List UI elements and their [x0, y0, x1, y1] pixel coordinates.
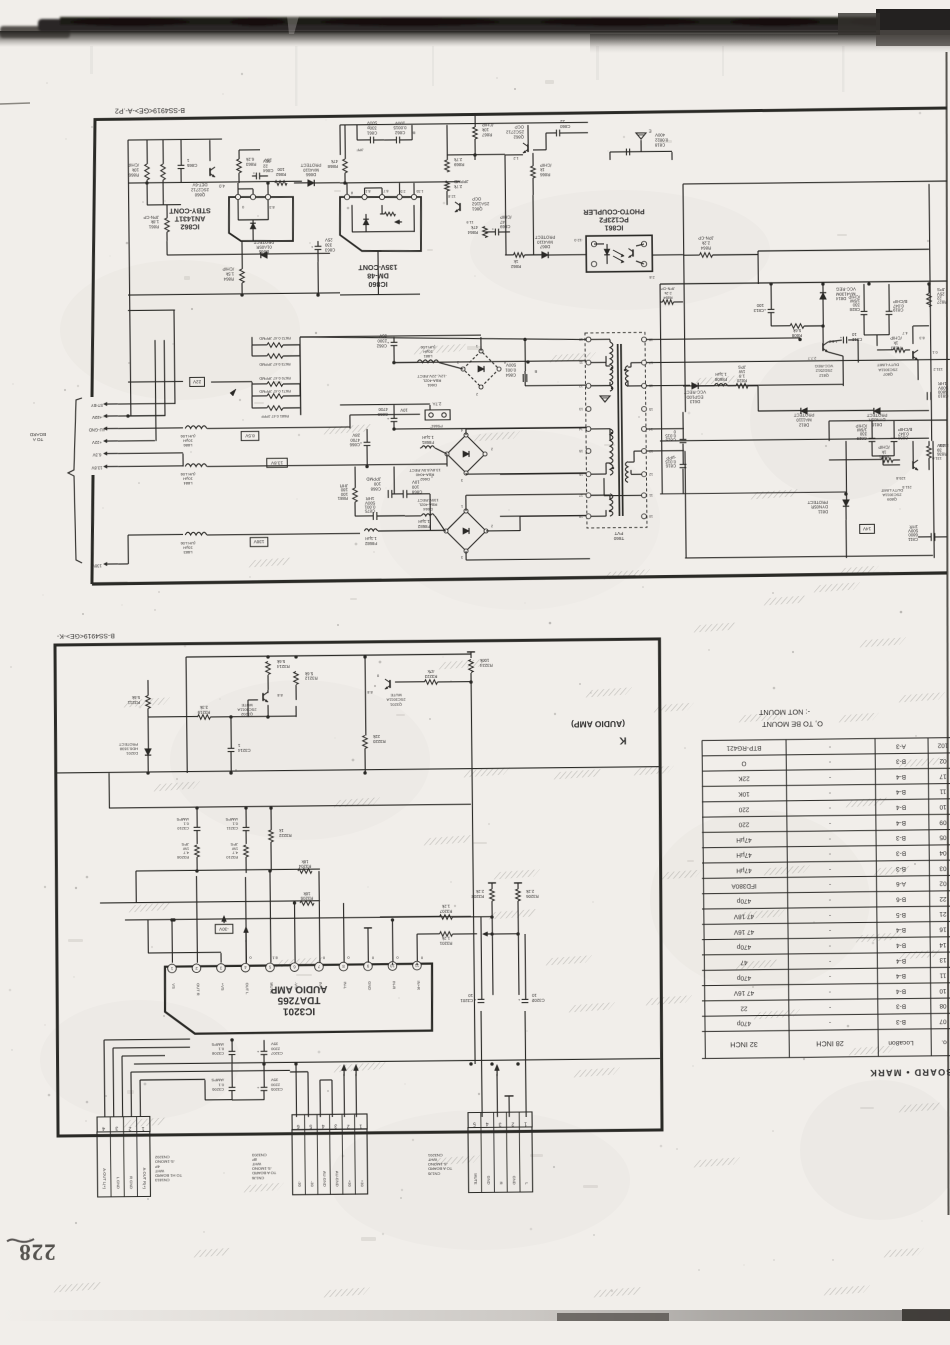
wire +22v run2 — [118, 440, 155, 442]
svg-text:2.2k: 2.2k — [475, 889, 484, 894]
svg-text:VCC-RECT: VCC-RECT — [683, 389, 706, 394]
diode D613 EGP10D VCC-RECT — [692, 383, 698, 389]
svg-text:IFD380A: IFD380A — [731, 882, 757, 889]
svg-text:-µPP: -µPP — [666, 455, 676, 460]
svg-text:11: 11 — [649, 493, 653, 497]
transistor Q809 2SC3011A duty-limit — [912, 461, 914, 469]
svg-text:B/CHIP: B/CHIP — [898, 427, 913, 432]
transistor Q807 2SC3011A duty-limit — [912, 351, 914, 359]
IC860 pin 1 — [411, 194, 416, 199]
boxed 13.8V — [267, 458, 288, 467]
vcc rail — [660, 281, 947, 284]
svg-text:10: 10 — [939, 987, 947, 994]
svg-text:B-SS4919<GE>-K-: B-SS4919<GE>-K- — [57, 632, 115, 640]
svg-text:+: + — [839, 335, 842, 340]
capacitor C812 10 — [842, 337, 844, 344]
svg-text:6.3V: 6.3V — [92, 453, 101, 458]
resistor R864b 47k — [483, 226, 488, 237]
T860 pin 14 right — [642, 427, 647, 432]
capacitor C865 1 — [178, 164, 185, 166]
svg-text:PROTECT: PROTECT — [793, 413, 814, 418]
svg-text:B-3: B-3 — [896, 1003, 906, 1010]
diode D811 DYN05R protect — [843, 500, 849, 506]
resistor R3201 1.2k — [440, 932, 453, 937]
svg-text:+30: +30 — [347, 1180, 352, 1188]
wire bridge D661 top — [480, 337, 482, 351]
transistor Q861 2SA1162 OCP — [459, 203, 461, 211]
bridge rectifier D662 13.8V 8.5V RECT — [447, 435, 485, 473]
svg-text:2.2k: 2.2k — [525, 889, 534, 894]
wire top rail audio — [186, 654, 471, 657]
svg-text:131.2: 131.2 — [933, 367, 943, 371]
svg-text:B: B — [534, 370, 537, 375]
svg-text:PVT: PVT — [614, 531, 623, 536]
resistor R866 10k — [145, 164, 150, 180]
wire pin4 up — [245, 877, 248, 963]
resistor R827 22 25V JPS — [927, 294, 932, 307]
svg-text:0: 0 — [371, 955, 374, 960]
capacitor C3211 0.1 AMPS — [243, 826, 250, 828]
resistor R831 1k chip — [881, 458, 893, 463]
IC860 DM-48 block — [340, 196, 422, 252]
wire pin7 up — [318, 871, 321, 963]
svg-text:MUTE: MUTE — [241, 703, 253, 708]
svg-text:22: 22 — [939, 895, 947, 902]
diode D3201 HD6.1638 protect — [145, 749, 151, 756]
svg-text:14: 14 — [939, 941, 947, 948]
svg-text:/CHIP: /CHIP — [855, 423, 867, 428]
wire stby lower rail — [167, 253, 330, 255]
svg-text:B-4: B-4 — [896, 957, 906, 964]
wire protect rail — [758, 410, 801, 412]
svg-text:-: - — [829, 1004, 831, 1011]
wire vcc emitter — [828, 352, 843, 356]
svg-text:10: 10 — [851, 332, 856, 337]
svg-text:500V: 500V — [506, 363, 516, 368]
resistor R861 1.8k chip — [165, 218, 170, 232]
svg-text:25V: 25V — [325, 238, 333, 243]
ferrite F8682 1.1uH — [364, 529, 377, 531]
resistor R862 100 — [275, 181, 287, 186]
IC860 pin 5 — [344, 194, 349, 199]
svg-text:PROTECT: PROTECT — [253, 239, 274, 244]
svg-text:10: 10 — [649, 514, 653, 518]
svg-text:OCP: OCP — [472, 197, 481, 202]
scanner mottling — [60, 260, 300, 400]
svg-text:(AUDIO AMP): (AUDIO AMP) — [571, 719, 625, 730]
resistor R864 1.5k chip — [240, 269, 245, 283]
wire pin18 left — [500, 514, 586, 517]
svg-text:JPS: JPS — [181, 842, 189, 847]
resistor R867 10k chip — [473, 127, 478, 139]
bridge rectifier D661 -12V -22V RECT — [463, 351, 499, 387]
svg-text:15: 15 — [649, 407, 653, 411]
svg-text:5: 5 — [309, 1123, 312, 1129]
wire ocp — [447, 153, 505, 156]
svg-text:500V: 500V — [367, 121, 377, 126]
zener D814 MA4130M VCC-REG — [820, 293, 826, 299]
svg-text:02: 02 — [939, 880, 947, 887]
drip streaks — [90, 46, 93, 74]
svg-text:10: 10 — [468, 993, 473, 998]
svg-text:+30: +30 — [360, 1180, 365, 1188]
svg-text:4: 4 — [486, 1121, 489, 1127]
svg-text:2.5: 2.5 — [400, 189, 405, 193]
svg-text:MUTE: MUTE — [390, 693, 402, 698]
T860 pin 10 right — [642, 514, 647, 519]
capacitor C816 0.015 — [680, 463, 687, 465]
capacitor C810 6800 500V — [926, 392, 928, 400]
capacitor C3207 2200 35V — [261, 1050, 268, 1052]
svg-text:2: 2 — [491, 524, 493, 528]
IC3201 pin 1 VS — [168, 964, 177, 973]
svg-text:1.1µH: 1.1µH — [418, 519, 430, 524]
wire bridge D664 — [444, 530, 447, 532]
svg-text:12.0: 12.0 — [574, 238, 581, 242]
svg-text:TDA7265: TDA7265 — [277, 994, 320, 1005]
wire audio rail y871 — [136, 869, 320, 871]
svg-text:o.: o. — [941, 1039, 947, 1046]
svg-text:B-4: B-4 — [896, 773, 906, 780]
svg-text:09: 09 — [939, 818, 947, 825]
T860 pin 13 left — [586, 407, 591, 412]
connector CN3202 to H1 board — [97, 1116, 150, 1132]
svg-text:08: 08 — [939, 1002, 947, 1009]
svg-text:211.5: 211.5 — [902, 485, 911, 489]
svg-text:17: 17 — [939, 772, 947, 779]
wire riser to connector 2 — [295, 1064, 298, 1117]
svg-text:OUT R: OUT R — [196, 983, 201, 996]
resistor R823 1k chip — [893, 348, 905, 353]
svg-text:DUTY-LIMIT: DUTY-LIMIT — [876, 363, 899, 368]
wire r-cluster — [864, 334, 889, 336]
svg-text:JPS: JPS — [937, 287, 945, 292]
IC861 pin E — [591, 241, 596, 246]
svg-text:PC123F2: PC123F2 — [599, 215, 629, 222]
IC861 coupling arrows — [613, 250, 624, 256]
svg-text:B-4: B-4 — [896, 819, 906, 826]
svg-text:18k: 18k — [303, 891, 311, 896]
svg-text:22K: 22K — [738, 775, 750, 782]
svg-text:1.1µH: 1.1µH — [365, 536, 377, 541]
svg-text:100k: 100k — [479, 658, 489, 663]
svg-text:B-5: B-5 — [896, 911, 906, 918]
svg-text:-: - — [829, 835, 831, 842]
svg-text:12.8: 12.8 — [448, 194, 455, 198]
svg-text:DUTY-LIMIT: DUTY-LIMIT — [880, 488, 903, 493]
svg-text:1.2: 1.2 — [513, 156, 518, 160]
svg-text:IC861: IC861 — [605, 224, 624, 231]
svg-text:CN3202: CN3202 — [154, 1155, 170, 1160]
T860 pin 10 left — [586, 337, 591, 342]
svg-text:(UH.L06: (UH.L06 — [180, 434, 196, 439]
svg-text:8.3: 8.3 — [919, 336, 924, 340]
svg-text:AU-GND: AU-GND — [335, 1171, 340, 1187]
svg-text:1: 1 — [142, 1125, 145, 1131]
wire pin1 up — [171, 920, 173, 963]
svg-text:PROTECT: PROTECT — [300, 162, 321, 167]
T860 pin 11 left — [586, 360, 591, 365]
transistor Q862 2SC2712 OCP — [527, 144, 529, 152]
svg-text:-VS-: -VS- — [294, 982, 299, 991]
svg-text:+22V: +22V — [92, 440, 102, 445]
svg-text:B-4: B-4 — [896, 941, 906, 948]
T860 pin 14 left — [586, 427, 591, 432]
resistor R3206 2.2k — [514, 882, 522, 884]
T860 pin 17 left — [586, 493, 591, 498]
svg-text:VCC-REG: VCC-REG — [815, 364, 834, 369]
capacitor C3201 10 — [478, 998, 485, 1000]
svg-text:B-4: B-4 — [896, 972, 906, 979]
svg-text:47k: 47k — [470, 225, 478, 230]
svg-text:-12V,-22V-RECT: -12V,-22V-RECT — [417, 374, 447, 379]
IC3201 pin 9 GND — [364, 962, 373, 971]
svg-text:2.7k: 2.7k — [453, 157, 462, 162]
wire audio rail y903 — [100, 901, 320, 903]
T860 ground — [600, 396, 610, 402]
svg-text:28V: 28V — [352, 433, 360, 438]
svg-text:8: 8 — [504, 360, 506, 364]
svg-text:4.0: 4.0 — [218, 183, 225, 188]
svg-text:R673 0.47 JPPMD: R673 0.47 JPPMD — [259, 362, 291, 366]
top-right dark block — [876, 9, 950, 35]
svg-text:10V: 10V — [400, 407, 408, 412]
T860 pin 12 left — [586, 383, 591, 388]
node mark — [230, 389, 236, 396]
capacitor C829 330 1/6W — [869, 437, 876, 439]
svg-text:47 16V: 47 16V — [733, 928, 754, 935]
svg-text:K: K — [619, 734, 627, 745]
inner block top — [758, 249, 929, 251]
svg-text:3: 3 — [115, 1125, 118, 1131]
svg-text:-: - — [829, 896, 831, 903]
transistor Q860 2SC2712 DET-6V — [209, 168, 211, 176]
boxed -30V — [215, 924, 233, 933]
resistor R3210 4.7 1W JPS — [244, 845, 249, 857]
IC860 pin 3 — [379, 194, 384, 199]
svg-text:13: 13 — [939, 956, 947, 963]
svg-text:02: 02 — [939, 757, 947, 764]
svg-text:10V: 10V — [412, 480, 420, 485]
svg-text:1.1µH: 1.1µH — [422, 435, 434, 440]
svg-text:10K: 10K — [738, 790, 750, 797]
wire bottom rail audio — [134, 1058, 660, 1064]
svg-text:GND: GND — [512, 1176, 517, 1185]
svg-text:+: + — [517, 997, 520, 1002]
svg-text:47k: 47k — [427, 669, 435, 674]
capacitor C828 330 1/6W — [861, 310, 868, 312]
svg-text:-: - — [829, 789, 831, 796]
wire pin11 feed — [416, 934, 418, 965]
connector CN3201 to A board — [468, 1112, 532, 1128]
svg-text:28V: 28V — [264, 158, 272, 163]
resistor R671 0.47 JPPMD — [267, 394, 283, 399]
wire pin10 left rail — [300, 334, 586, 342]
svg-text:/AMPS: /AMPS — [176, 817, 189, 822]
svg-text:PROTECT: PROTECT — [118, 742, 138, 747]
svg-text:B-3: B-3 — [896, 849, 906, 856]
svg-text:BTP-RG421: BTP-RG421 — [726, 744, 761, 751]
svg-text:B-4: B-4 — [896, 987, 906, 994]
T860 pin 16 right — [642, 383, 647, 388]
diode D866 MA4110 protect — [308, 180, 314, 186]
wire pin6 up — [294, 903, 297, 963]
svg-text:CN3201: CN3201 — [427, 1153, 443, 1158]
resistor R670 0.47 JPPMD — [267, 382, 283, 387]
resistor R3220 22k — [363, 735, 368, 748]
wire au-gnd run — [118, 427, 183, 430]
second channel block — [829, 420, 947, 422]
svg-text:IC3201: IC3201 — [282, 1005, 315, 1016]
transistor Q3201 2SC3011A MUTE — [389, 680, 391, 688]
power-supply board outline B-SS4919-A — [89, 108, 950, 397]
resistor R681 0.47 JPPF — [267, 406, 283, 411]
T860 pin 18 left — [586, 514, 591, 519]
svg-text:1: 1 — [359, 1123, 362, 1129]
svg-text:35V: 35V — [271, 1078, 279, 1083]
audio board outline B-SS4919-K — [53, 639, 665, 1137]
svg-text:100V: 100V — [395, 121, 405, 126]
label JPN-CP R884 2.2k — [663, 300, 674, 305]
svg-text:18: 18 — [579, 514, 583, 518]
wire IC860 bottom — [377, 251, 379, 295]
wire pin8 up — [343, 903, 346, 963]
svg-text:4: 4 — [102, 1125, 105, 1131]
svg-text:AU-GND: AU-GND — [89, 427, 106, 432]
wire pin5 up — [269, 871, 272, 963]
svg-text:A-OUT R(+): A-OUT R(+) — [142, 1168, 147, 1190]
svg-text:IN+L: IN+L — [318, 982, 323, 991]
svg-text:MUTE: MUTE — [473, 1173, 478, 1185]
resistor R3207 1.2k — [439, 915, 452, 920]
capacitor C3205 2200 35V — [261, 1086, 268, 1088]
svg-text:5.6k: 5.6k — [304, 671, 313, 676]
IC861 photo transistor — [632, 249, 634, 256]
wire pin10 feed — [391, 920, 393, 965]
svg-text:18k: 18k — [301, 859, 309, 864]
svg-text:MUTE: MUTE — [269, 982, 274, 994]
capacitor C862 0.0015 100V — [395, 137, 397, 144]
T860 pin 15 right — [642, 407, 647, 412]
wire bridge D662 sides — [465, 429, 467, 435]
svg-text:2: 2 — [511, 1121, 514, 1127]
resistor R672 0.47 JPPMD — [267, 343, 283, 348]
svg-text:R: R — [499, 1182, 504, 1185]
svg-text:/CHIP: /CHIP — [848, 294, 860, 299]
wire stby riser — [118, 402, 175, 405]
svg-text:1.1µH: 1.1µH — [715, 372, 727, 377]
svg-text:6.2k: 6.2k — [245, 157, 254, 162]
svg-text:470p: 470p — [736, 943, 751, 950]
wire pin10 up — [392, 963, 394, 965]
svg-text:8.5V: 8.5V — [244, 433, 254, 438]
svg-text:5.6k: 5.6k — [131, 695, 140, 700]
svg-text:47 18V: 47 18V — [733, 913, 754, 920]
capacitor C866 4700 28V — [364, 441, 371, 443]
transformer T860 dashed enclosure — [585, 332, 647, 528]
svg-text:125.8: 125.8 — [896, 476, 906, 480]
svg-text:11: 11 — [939, 788, 946, 795]
svg-text:28 INCH: 28 INCH — [816, 1039, 844, 1048]
svg-text:1HR: 1HR — [366, 496, 375, 501]
svg-text:4700: 4700 — [378, 407, 388, 412]
IC3201 pin 5 MUTE — [266, 963, 275, 972]
svg-text:11: 11 — [939, 972, 946, 979]
resistor R3205 18k — [300, 901, 314, 906]
wire 22v link — [128, 380, 183, 383]
arrow +30 feeds — [343, 1066, 345, 1076]
transistor Q3202 2SC3011A MUTE — [262, 693, 264, 701]
svg-text:PROTECT: PROTECT — [807, 500, 828, 505]
svg-text:-: - — [829, 850, 831, 857]
IC3201 pin 7 IN+L — [315, 962, 324, 971]
svg-text:47µH: 47µH — [736, 836, 752, 843]
svg-text:VS: VS — [171, 983, 176, 989]
svg-text:PROTECT: PROTECT — [534, 235, 555, 240]
bottom faint streak — [0, 1310, 950, 1321]
svg-text:+: + — [310, 244, 313, 249]
right page edge line — [947, 52, 949, 1215]
svg-text:DET-6V: DET-6V — [192, 182, 207, 187]
diode D865 01A05R protect — [261, 252, 267, 258]
svg-text:JPPMD: JPPMD — [366, 477, 381, 482]
wire audio rail y808 — [109, 804, 471, 808]
svg-text:+VS: +VS — [220, 983, 225, 991]
capacitor C3214 1 — [228, 747, 235, 749]
svg-text:228: 228 — [18, 1239, 56, 1264]
svg-text:2.7.7: 2.7.7 — [808, 356, 816, 360]
capacitor C864 22 35V — [255, 173, 257, 180]
svg-text:-: - — [829, 743, 831, 750]
capacitor C875 0.001 500V — [372, 512, 374, 520]
svg-text:GND: GND — [367, 981, 372, 990]
svg-text:-: - — [829, 927, 831, 934]
svg-text:07: 07 — [939, 1018, 947, 1025]
resistor R866b 1k chip — [531, 166, 536, 178]
svg-text:(UH.L06: (UH.L06 — [420, 345, 436, 350]
svg-text:2: 2 — [476, 392, 478, 396]
svg-text:10: 10 — [531, 993, 536, 998]
ferrite F8682b — [421, 514, 434, 516]
svg-text:+22V: +22V — [92, 415, 102, 420]
svg-text:CN3203: CN3203 — [251, 1153, 267, 1158]
svg-text:0: 0 — [242, 205, 244, 209]
svg-text:100: 100 — [756, 303, 764, 308]
photo-coupler IC861 PC123F2 — [586, 235, 652, 272]
IC862 pin 2 — [250, 194, 255, 199]
svg-text:B-4: B-4 — [896, 804, 906, 811]
svg-text:BOARD • MARK: BOARD • MARK — [869, 1067, 950, 1078]
svg-text:2: 2 — [347, 1123, 350, 1129]
svg-text:13.8V,8.5V-RECT: 13.8V,8.5V-RECT — [409, 468, 441, 473]
svg-text:PROTECT: PROTECT — [866, 412, 887, 417]
resistor R836 39 25V — [927, 446, 932, 458]
svg-text:+: + — [256, 1049, 259, 1054]
wire into IC860 — [340, 182, 460, 183]
svg-text:-30V: -30V — [218, 926, 229, 931]
capacitor C867 47 — [494, 229, 496, 236]
svg-text:138V: 138V — [92, 563, 102, 568]
svg-text:13.8V: 13.8V — [91, 465, 102, 470]
T860 pin 11 right — [642, 493, 647, 498]
wire pin14 left — [430, 427, 586, 429]
capacitor C819 0.047 B/CHIP — [886, 310, 893, 312]
svg-text:-: - — [829, 912, 831, 919]
svg-text:B-3: B-3 — [896, 1018, 906, 1025]
svg-text:5.6k: 5.6k — [276, 659, 285, 664]
svg-text:220: 220 — [738, 821, 749, 828]
svg-text:IN-L: IN-L — [343, 981, 348, 989]
